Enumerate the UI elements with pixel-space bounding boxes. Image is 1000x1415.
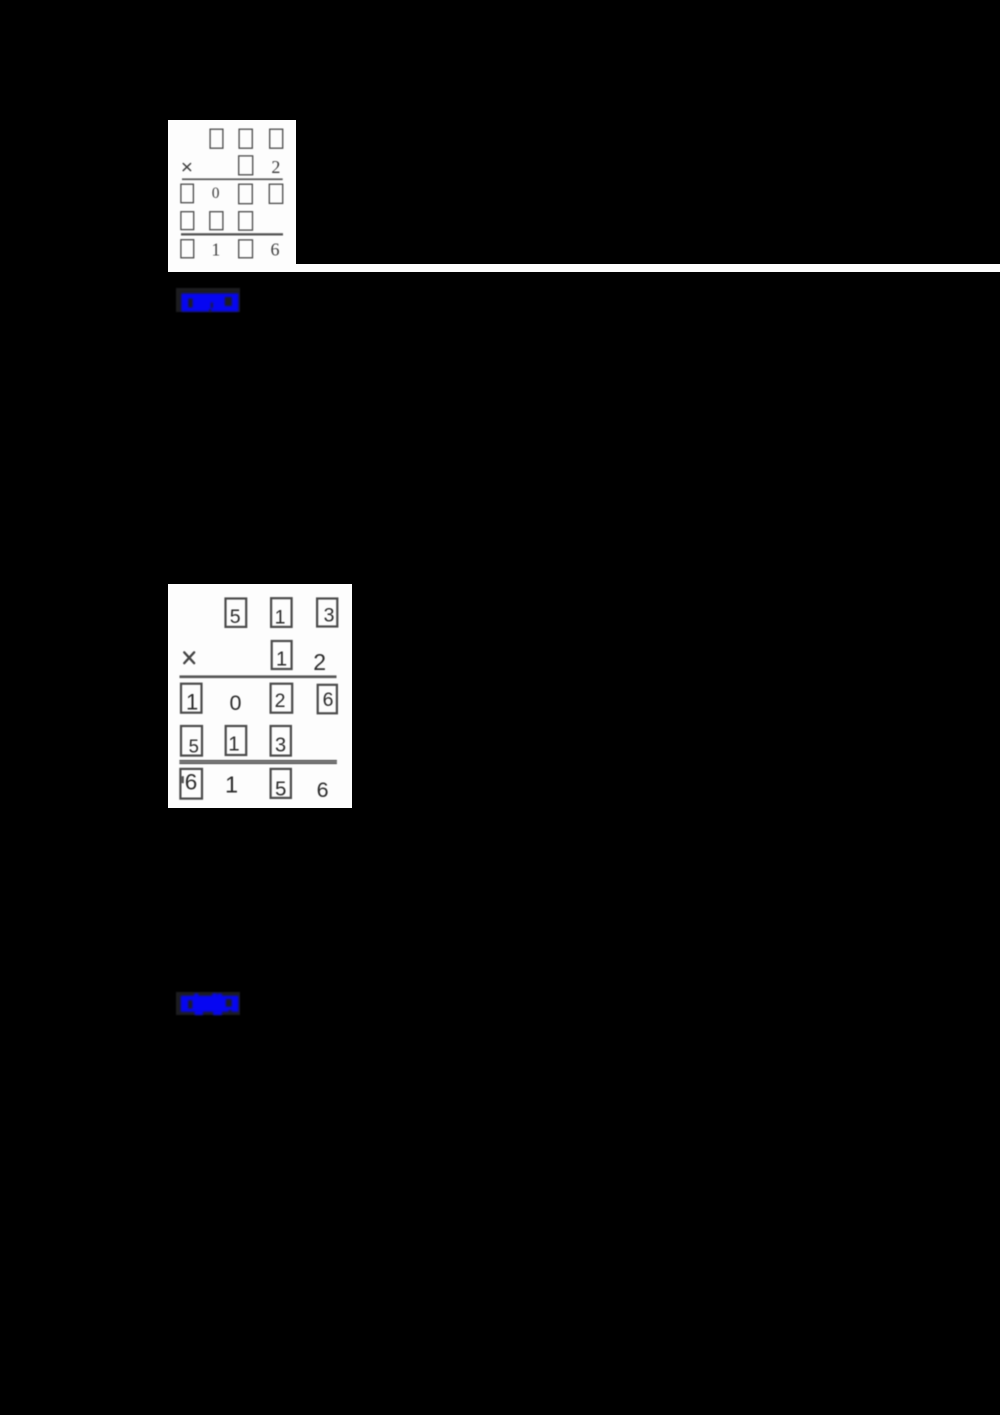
times sign (184, 652, 194, 663)
row4 box 1 (181, 212, 194, 230)
svg-text:3: 3 (275, 735, 286, 757)
svg-text:3: 3 (324, 605, 335, 627)
row1 box 3 (317, 599, 337, 627)
top bumps (194, 994, 198, 997)
svg-text:6: 6 (323, 689, 334, 711)
svg-text:6: 6 (317, 778, 329, 802)
row1 box 3 (270, 129, 283, 148)
row1 box 1 (271, 598, 292, 627)
row3 box 1 (181, 184, 194, 203)
image 1: white worksheet snippet (empty-box long multiplication) (168, 120, 296, 272)
rule line 2 (181, 233, 283, 235)
image 1 diagram (168, 120, 296, 272)
times sign (183, 164, 190, 171)
answer label 2 (blue CJK label on dark chip) (176, 992, 240, 1015)
svg-text:2: 2 (275, 690, 286, 712)
row2 box (239, 156, 253, 175)
svg-text:1: 1 (276, 649, 287, 671)
svg-text:2: 2 (271, 157, 280, 177)
svg-text:2: 2 (313, 649, 326, 675)
row1 box 5 (226, 599, 247, 627)
svg-text:1: 1 (275, 607, 286, 629)
bottom descenders (195, 1012, 203, 1015)
svg-text:1: 1 (212, 240, 221, 260)
image 1 right-extending white strip (296, 264, 1000, 272)
svg-text:0: 0 (212, 185, 220, 202)
svg-text:0: 0 (230, 691, 242, 715)
blue text blob "answer" (181, 294, 238, 312)
row4 box 2 (210, 212, 223, 230)
row1 box 1 (210, 129, 223, 148)
row3 box 2 (239, 184, 253, 204)
row4 box 5 (181, 726, 202, 756)
blue text blob "analysis" (181, 993, 239, 1015)
svg-text:1: 1 (186, 690, 198, 715)
pre-bracket wedge (226, 999, 232, 1007)
svg-text:6: 6 (185, 770, 198, 795)
row5 box 2 (239, 240, 253, 258)
rule line 2 (179, 761, 337, 762)
answer label 1 (blue CJK label on dark chip) (176, 288, 240, 312)
row1 box 2 (239, 129, 252, 148)
row5 box 1 (181, 240, 194, 258)
svg-text:5: 5 (230, 606, 241, 628)
row3 box 1 (181, 684, 202, 713)
row4 box 3 (271, 726, 291, 756)
svg-text:5: 5 (189, 736, 199, 757)
bracket gap notch (188, 299, 192, 308)
svg-text:5: 5 (275, 778, 286, 801)
row3 box 2 (271, 684, 293, 713)
row2 box 1 (272, 641, 292, 669)
svg-text:1: 1 (228, 732, 239, 755)
bottom-right nick (229, 1010, 232, 1012)
row5 box 5 (271, 769, 291, 798)
stray mark (182, 776, 184, 783)
rule line 1 (180, 675, 337, 678)
row4 box 3 (239, 212, 253, 230)
svg-text:6: 6 (271, 240, 280, 260)
svg-text:1: 1 (225, 772, 238, 798)
row5 box 6 (180, 769, 202, 799)
row3 box 6 (318, 685, 337, 714)
row3 box 3 (269, 184, 282, 203)
pre-bracket wedge (225, 297, 232, 306)
row4 box 1 (226, 726, 247, 755)
bracket gap notch (188, 1000, 192, 1008)
rule line 1 (182, 178, 283, 180)
bottom dot (209, 309, 211, 312)
image 2: white worksheet snippet (filled long multiplication 513 x 12) (168, 584, 352, 808)
inter-char notch (211, 303, 213, 309)
